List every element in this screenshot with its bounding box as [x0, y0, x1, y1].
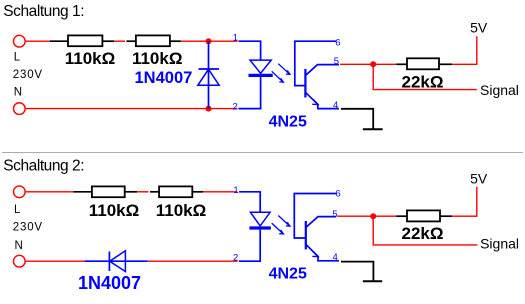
svg-text:4N25: 4N25: [269, 113, 307, 130]
separator line: [2, 152, 523, 154]
opto U1 LED wiring (S1): [238, 41, 260, 108]
svg-text:1N4007: 1N4007: [78, 273, 141, 293]
opto U1 emitter to pin4 (S1): [305, 92, 339, 108]
pin stub R2 left (S1): [127, 40, 136, 42]
svg-text:230V: 230V: [13, 222, 43, 234]
svg-text:110kΩ: 110kΩ: [132, 49, 183, 68]
svg-text:5: 5: [332, 209, 337, 220]
junction node output (S1): [370, 61, 376, 67]
opto U1 LED cathode bar (S1): [249, 74, 273, 77]
pin stub R6 right (S2): [440, 215, 452, 217]
ground (S1): [363, 128, 383, 130]
svg-text:5: 5: [334, 56, 339, 67]
svg-text:4N25: 4N25: [269, 265, 307, 282]
terminal N (S2): [13, 255, 25, 267]
junction node bottom (S1): [206, 106, 212, 112]
resistor R4 110k (S2): [92, 186, 125, 197]
svg-text:L: L: [14, 51, 21, 63]
svg-text:Signal: Signal: [480, 82, 519, 98]
svg-text:22kΩ: 22kΩ: [402, 224, 444, 243]
terminal N (S1): [13, 103, 25, 115]
pin stub R3 right (S1): [439, 63, 452, 65]
pin stub R2 right (S1): [170, 40, 181, 42]
wire R1 to R2 (S1): [114, 40, 125, 42]
svg-text:1: 1: [233, 185, 238, 196]
resistor R5 110k (S2): [159, 186, 192, 197]
junction node top (S1): [206, 38, 212, 44]
wire node to Signal (S1): [373, 64, 477, 89]
svg-text:4: 4: [333, 252, 338, 263]
wire pin4 to ground (S2): [341, 262, 373, 282]
svg-text:N: N: [14, 86, 22, 98]
pin stub R5 left (S2): [150, 191, 159, 193]
light arrow 1 (S2): [278, 216, 290, 227]
svg-text:Signal: Signal: [480, 236, 519, 252]
wire R4 to R5 (S2): [137, 191, 148, 193]
opto U1 transistor base bar (S1): [304, 69, 306, 98]
pin stub R6 left (S2): [396, 215, 407, 217]
pin stub R4 left (S2): [73, 191, 92, 193]
svg-text:22kΩ: 22kΩ: [402, 73, 444, 92]
pin stub R1 right (S1): [102, 40, 114, 42]
terminal L (S1): [13, 35, 25, 47]
light arrow 2 (S1): [272, 71, 284, 82]
wire pin5 to node (S2): [337, 215, 396, 217]
wire node to Signal (S2): [373, 216, 477, 245]
wire N to opto pin2 (S1): [26, 108, 238, 110]
light arrow 2 (S2): [272, 223, 284, 234]
svg-text:110kΩ: 110kΩ: [156, 201, 207, 220]
pin stub R4 right (S2): [125, 191, 137, 193]
svg-text:2: 2: [233, 101, 238, 112]
opto U2 emitter to pin4 (S2): [306, 244, 339, 260]
svg-text:110kΩ: 110kΩ: [65, 49, 116, 68]
diode D2 1N4007 (S2): [85, 251, 148, 272]
wire R5 to opto pin1 (S2): [203, 191, 237, 193]
diode D1 1N4007 (S1): [198, 41, 219, 108]
wire R6 to 5V (S2): [452, 187, 477, 216]
wire diode to opto pin2 (S2): [148, 260, 238, 262]
wire N to diode (S2): [26, 260, 85, 262]
opto U2 collector to pin5 (S2): [306, 217, 336, 228]
opto U2 transistor base bar (S2): [305, 221, 307, 249]
wire R2 to opto pin1 (S1): [181, 40, 238, 42]
svg-text:1N4007: 1N4007: [135, 69, 193, 87]
junction node output (S2): [370, 213, 376, 219]
pin stub R1 left (S1): [50, 40, 68, 42]
svg-text:N: N: [15, 240, 23, 252]
svg-text:5V: 5V: [470, 170, 488, 186]
opto U1 base wire pin6 (S1): [295, 41, 337, 85]
opto U1 collector to pin5 (S1): [305, 65, 339, 76]
svg-text:230V: 230V: [13, 69, 43, 81]
opto U2 LED wiring (S2): [239, 192, 260, 261]
opto U2 LED cathode bar (S2): [249, 226, 271, 229]
svg-text:Schaltung 1:: Schaltung 1:: [3, 3, 84, 20]
resistor R1 110k (S1): [68, 35, 102, 46]
ground (S2): [363, 280, 382, 282]
wire R3 to 5V (S1): [452, 36, 477, 64]
resistor R3 22k (S1): [407, 58, 439, 69]
svg-text:6: 6: [335, 188, 340, 199]
opto U1 LED triangle (S1): [250, 60, 271, 73]
wire pin4 to ground (S1): [341, 109, 373, 129]
wire L to R4 (S2): [26, 191, 73, 193]
svg-text:Schaltung 2:: Schaltung 2:: [3, 157, 84, 174]
terminal L (S2): [13, 186, 25, 198]
svg-text:1: 1: [233, 33, 238, 44]
svg-text:L: L: [14, 204, 21, 216]
svg-text:6: 6: [335, 38, 340, 49]
svg-text:5V: 5V: [470, 20, 488, 36]
pin stub R5 right (S2): [192, 191, 203, 193]
wire pin5 to node (S1): [340, 63, 396, 65]
emitter arrowhead (S1): [312, 100, 318, 105]
svg-text:4: 4: [333, 100, 338, 111]
opto U2 LED triangle (S2): [250, 212, 270, 226]
opto U2 base wire pin6 (S2): [294, 194, 336, 239]
pin stub R3 left (S1): [396, 63, 407, 65]
svg-text:110kΩ: 110kΩ: [89, 201, 140, 220]
resistor R2 110k (S1): [136, 35, 170, 46]
resistor R6 22k (S2): [407, 210, 440, 221]
light arrow 1 (S1): [278, 64, 290, 75]
emitter arrowhead (S2): [312, 252, 318, 257]
wire L to R1 (S1): [26, 40, 50, 42]
